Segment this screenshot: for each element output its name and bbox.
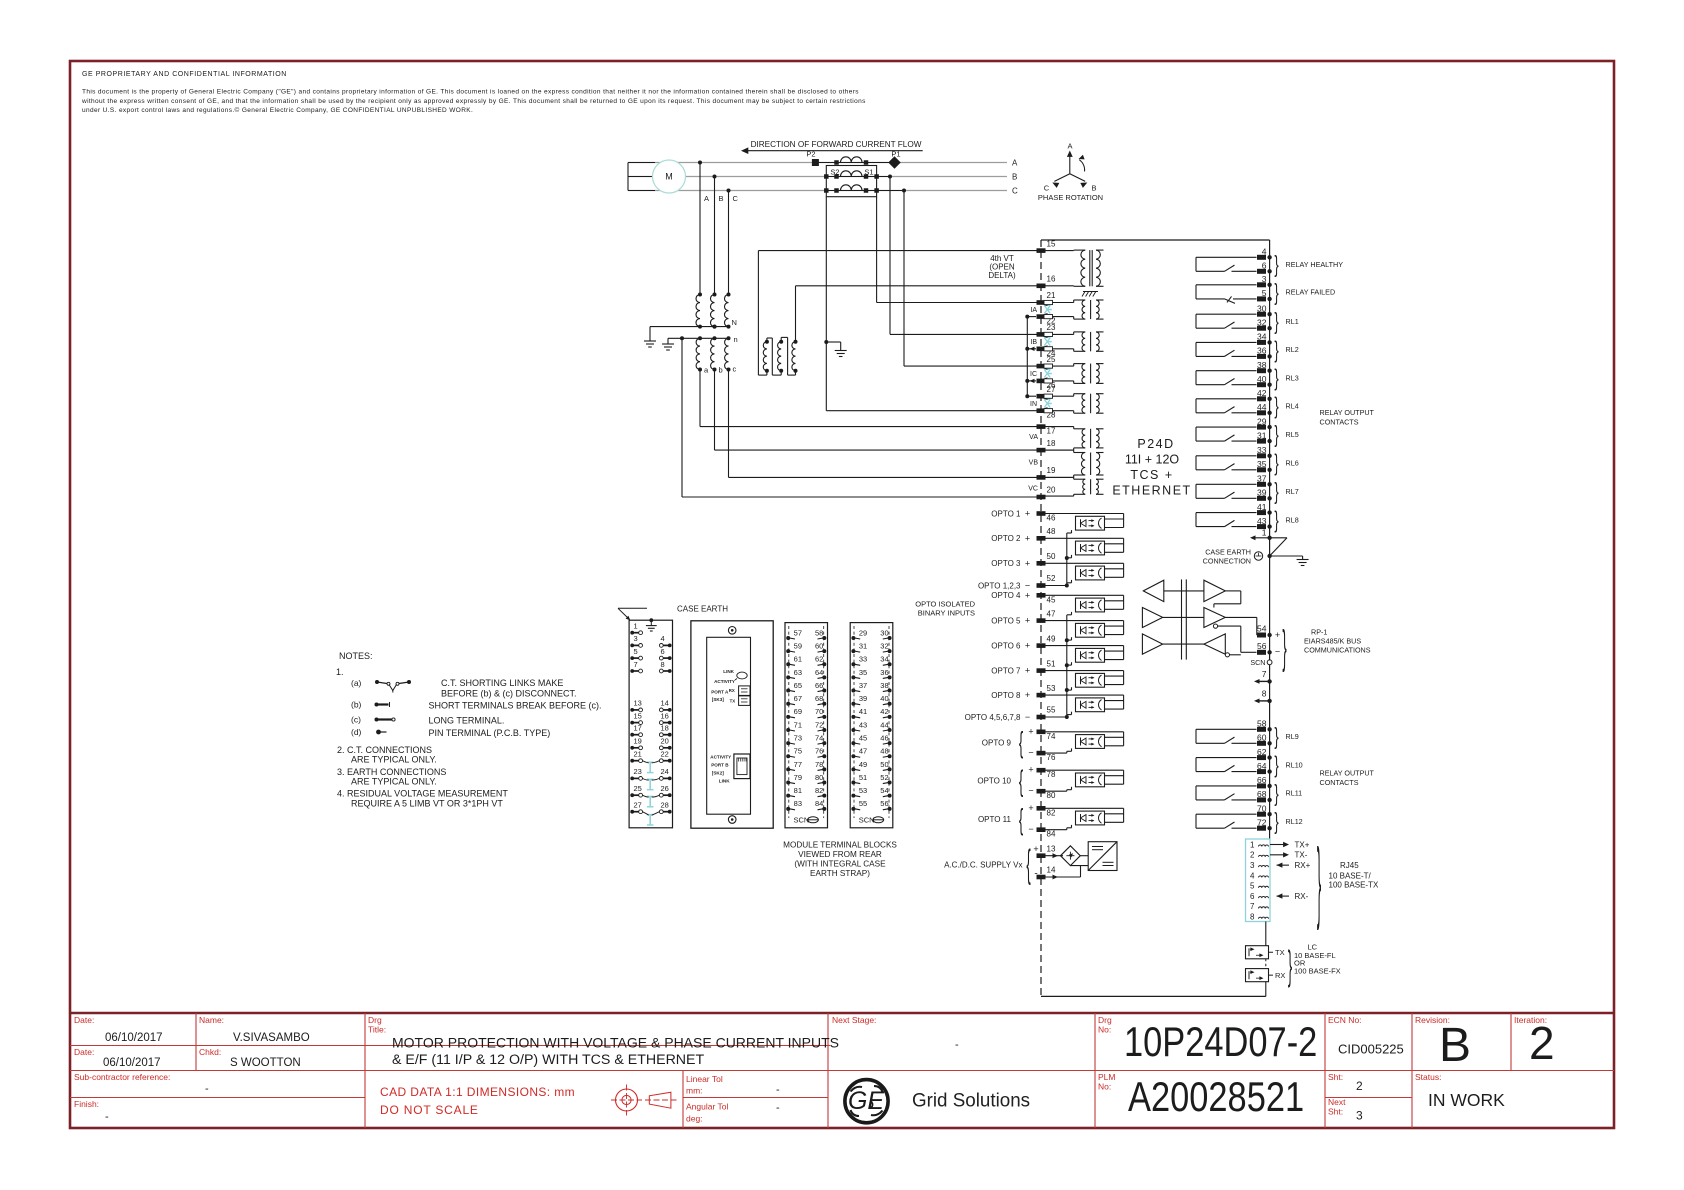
svg-text:30: 30 <box>1257 303 1267 313</box>
svg-text:58: 58 <box>815 628 823 637</box>
svg-text:74: 74 <box>1047 732 1056 741</box>
svg-text:−: − <box>1028 748 1033 758</box>
svg-text:45: 45 <box>1047 595 1056 604</box>
svg-text:06/10/2017: 06/10/2017 <box>103 1057 161 1069</box>
svg-text:N: N <box>732 318 737 327</box>
svg-text:REQUIRE A 5 LIMB VT OR 3: REQUIRE A 5 LIMB VT OR 3*1PH VT <box>351 799 503 809</box>
svg-text:P2: P2 <box>806 150 815 159</box>
svg-text:47: 47 <box>1047 609 1056 618</box>
svg-text:25: 25 <box>1047 355 1056 364</box>
svg-text:13: 13 <box>1047 844 1056 853</box>
svg-text:70: 70 <box>1257 803 1267 813</box>
svg-text:50: 50 <box>1047 552 1056 561</box>
svg-text:-: - <box>955 1039 959 1051</box>
svg-text:3: 3 <box>1250 861 1255 870</box>
svg-text:7: 7 <box>1262 669 1267 679</box>
svg-text:28: 28 <box>661 801 669 810</box>
svg-text:IN: IN <box>1030 401 1037 408</box>
svg-text:44: 44 <box>880 720 888 729</box>
svg-text:}: } <box>1274 308 1278 334</box>
svg-text:Title:: Title: <box>368 1025 386 1035</box>
svg-text:OPTO 1: OPTO 1 <box>991 509 1021 518</box>
svg-text:Date:: Date: <box>74 1015 94 1025</box>
svg-text:15: 15 <box>634 711 642 720</box>
svg-text:PHASE ROTATION: PHASE ROTATION <box>1038 193 1103 202</box>
svg-text:48: 48 <box>880 747 888 756</box>
svg-text:No:: No: <box>1098 1082 1111 1092</box>
svg-text:OPTO 8: OPTO 8 <box>991 691 1021 700</box>
svg-text:S1: S1 <box>864 168 873 177</box>
svg-text:82: 82 <box>815 786 823 795</box>
svg-text:RL11: RL11 <box>1286 789 1303 798</box>
svg-text:S WOOTTON: S WOOTTON <box>230 1057 301 1069</box>
svg-text:RELAY OUTPUT: RELAY OUTPUT <box>1320 408 1375 417</box>
svg-text:Angular Tol: Angular Tol <box>686 1102 728 1112</box>
svg-text:LINK: LINK <box>723 669 734 674</box>
svg-text:68: 68 <box>1257 789 1267 799</box>
svg-text:76: 76 <box>815 747 823 756</box>
svg-text:A: A <box>1012 158 1018 167</box>
svg-text:83: 83 <box>794 799 802 808</box>
svg-text:17: 17 <box>634 724 642 733</box>
svg-text:IN WORK: IN WORK <box>1428 1090 1505 1110</box>
svg-text:14: 14 <box>661 699 669 708</box>
svg-text:TCS +: TCS + <box>1130 468 1173 482</box>
svg-text:PLM: PLM <box>1098 1072 1115 1082</box>
svg-text:TX: TX <box>730 699 736 704</box>
svg-text:58: 58 <box>1257 719 1267 729</box>
svg-text:COMMUNICATIONS: COMMUNICATIONS <box>1304 646 1371 655</box>
svg-text:ARE TYPICAL ONLY.: ARE TYPICAL ONLY. <box>351 777 437 787</box>
svg-text:1: 1 <box>1262 528 1267 538</box>
svg-text:43: 43 <box>859 720 867 729</box>
svg-text:+: + <box>1025 509 1030 519</box>
svg-text:1: 1 <box>1250 840 1255 849</box>
svg-text:19: 19 <box>634 737 642 746</box>
svg-text:(d): (d) <box>351 727 362 737</box>
svg-text:60: 60 <box>1257 733 1267 743</box>
svg-text:5: 5 <box>1250 882 1255 891</box>
svg-text:8: 8 <box>1250 913 1255 922</box>
svg-text:CASE EARTH: CASE EARTH <box>677 605 728 614</box>
svg-text:}: } <box>1274 780 1278 806</box>
svg-text:100 BASE-FX: 100 BASE-FX <box>1294 966 1341 975</box>
svg-text:IB: IB <box>1030 339 1037 346</box>
svg-text:3. EARTH CONNECTIONS: 3. EARTH CONNECTIONS <box>337 767 446 777</box>
svg-text:Linear Tol: Linear Tol <box>686 1074 723 1084</box>
svg-text:LONG TERMINAL.: LONG TERMINAL. <box>429 716 505 726</box>
svg-text:VC: VC <box>1028 486 1038 493</box>
svg-text:RL9: RL9 <box>1286 732 1299 741</box>
svg-text:ARE TYPICAL ONLY.: ARE TYPICAL ONLY. <box>351 755 437 765</box>
svg-text:−: − <box>1028 824 1033 834</box>
svg-text:ETHERNET: ETHERNET <box>1112 484 1191 498</box>
svg-text:DIRECTION OF FORWARD CURREN: DIRECTION OF FORWARD CURRENT FLOW <box>751 140 922 149</box>
svg-text:2: 2 <box>1250 851 1255 860</box>
svg-text:41: 41 <box>859 707 867 716</box>
svg-text:A.C./D.C. SUPPLY Vx: A.C./D.C. SUPPLY Vx <box>944 861 1022 870</box>
svg-text:Chkd:: Chkd: <box>199 1047 221 1057</box>
svg-text:51: 51 <box>1047 659 1056 668</box>
svg-text:+: + <box>1028 726 1033 736</box>
svg-text:P24D: P24D <box>1137 437 1174 451</box>
svg-text:42: 42 <box>880 707 888 716</box>
svg-text:50: 50 <box>880 760 888 769</box>
svg-text:3: 3 <box>634 634 638 643</box>
svg-text:4th VT: 4th VT <box>990 254 1014 263</box>
svg-text:81: 81 <box>794 786 802 795</box>
svg-text:23: 23 <box>634 767 642 776</box>
svg-text:44: 44 <box>1257 402 1267 412</box>
svg-text:2: 2 <box>1529 1017 1555 1069</box>
svg-text:}: } <box>1274 507 1278 533</box>
svg-text:26: 26 <box>661 784 669 793</box>
svg-text:7: 7 <box>634 660 638 669</box>
svg-text:60: 60 <box>815 642 823 651</box>
svg-text:LINK: LINK <box>719 779 730 784</box>
svg-text:-: - <box>776 1102 780 1114</box>
svg-text:RELAY FAILED: RELAY FAILED <box>1286 288 1336 297</box>
svg-text:RX: RX <box>1275 971 1285 980</box>
svg-text:06/10/2017: 06/10/2017 <box>105 1032 163 1044</box>
svg-text:Name:: Name: <box>199 1015 224 1025</box>
svg-text:ACTIVITY: ACTIVITY <box>714 679 735 684</box>
svg-text:52: 52 <box>880 773 888 782</box>
svg-text:32: 32 <box>1257 317 1267 327</box>
svg-text:BEFORE (b) & (c) DISCONNECT.: BEFORE (b) & (c) DISCONNECT. <box>441 689 577 699</box>
svg-text:100 BASE-TX: 100 BASE-TX <box>1329 881 1379 890</box>
svg-text:6: 6 <box>661 647 665 656</box>
svg-text:10 BASE-T/: 10 BASE-T/ <box>1329 872 1372 881</box>
svg-text:Date:: Date: <box>74 1047 94 1057</box>
svg-text:72: 72 <box>1257 817 1267 827</box>
svg-text:Grid Solutions: Grid Solutions <box>912 1090 1030 1111</box>
svg-text:4: 4 <box>1250 871 1255 880</box>
svg-text:52: 52 <box>1047 574 1056 583</box>
svg-text:+: + <box>1275 630 1280 640</box>
svg-text:46: 46 <box>1047 514 1056 523</box>
svg-text:4. RESIDUAL VOLTAGE MEASURE: 4. RESIDUAL VOLTAGE MEASUREMENT <box>337 789 508 799</box>
svg-text:CONTACTS: CONTACTS <box>1320 418 1359 427</box>
svg-text:Drg: Drg <box>1098 1015 1112 1025</box>
svg-text:OPTO 11: OPTO 11 <box>978 815 1012 824</box>
svg-text:56: 56 <box>1257 641 1267 651</box>
svg-text:+: + <box>1025 690 1030 700</box>
svg-text:27: 27 <box>634 801 642 810</box>
svg-text:+: + <box>1025 616 1030 626</box>
svg-text:}: } <box>1274 723 1278 749</box>
svg-text:}: } <box>1274 752 1278 778</box>
svg-text:No:: No: <box>1098 1025 1111 1035</box>
svg-text:{: { <box>1019 802 1024 836</box>
svg-text:30: 30 <box>880 628 888 637</box>
svg-text:[SK2]: [SK2] <box>712 771 724 776</box>
svg-text:68: 68 <box>815 694 823 703</box>
svg-text:PORT B: PORT B <box>711 763 729 768</box>
svg-text:2. C.T. CONNECTIONS: 2. C.T. CONNECTIONS <box>337 745 432 755</box>
svg-text:46: 46 <box>880 734 888 743</box>
svg-text:51: 51 <box>859 773 867 782</box>
svg-text:Status:: Status: <box>1415 1072 1441 1082</box>
svg-text:MOTOR PROTECTION WITH VOLTAGE: MOTOR PROTECTION WITH VOLTAGE & PHASE CU… <box>392 1035 839 1051</box>
svg-text:& E/F (11 I/P & 12 O/P) WITH T: & E/F (11 I/P & 12 O/P) WITH TCS & ETHER… <box>392 1052 705 1068</box>
svg-text:65: 65 <box>794 681 802 690</box>
svg-text:CID005225: CID005225 <box>1338 1042 1404 1057</box>
svg-text:56: 56 <box>880 799 888 808</box>
svg-text:55: 55 <box>1047 706 1056 715</box>
svg-text:A: A <box>704 194 709 203</box>
svg-text:75: 75 <box>794 747 802 756</box>
svg-text:Sht:: Sht: <box>1328 1072 1343 1082</box>
svg-text:B: B <box>1439 1019 1471 1072</box>
svg-text:+: + <box>1025 558 1030 568</box>
svg-text:}: } <box>1274 808 1278 834</box>
svg-text:(c): (c) <box>351 715 361 725</box>
svg-text:1.: 1. <box>336 667 344 677</box>
svg-text:4: 4 <box>661 634 665 643</box>
svg-text:RP-1: RP-1 <box>1311 628 1327 637</box>
svg-text:IC: IC <box>1030 371 1037 378</box>
svg-text:4: 4 <box>1262 247 1267 257</box>
svg-text:}: } <box>1288 944 1292 988</box>
svg-text:PORT A: PORT A <box>711 690 729 695</box>
svg-text:18: 18 <box>1047 439 1056 448</box>
svg-text:under U.S. export control laws: under U.S. export control laws and regul… <box>82 106 473 114</box>
svg-text:18: 18 <box>661 724 669 733</box>
svg-text:[SK3]: [SK3] <box>712 697 724 702</box>
svg-text:8: 8 <box>1262 688 1267 698</box>
svg-text:66: 66 <box>815 681 823 690</box>
svg-text:}: } <box>1274 279 1278 305</box>
svg-text:3: 3 <box>1262 274 1267 284</box>
svg-text:RL1: RL1 <box>1286 317 1299 326</box>
svg-text:25: 25 <box>634 784 642 793</box>
svg-text:OPTO ISOLATED: OPTO ISOLATED <box>915 600 975 609</box>
svg-text:27: 27 <box>1047 385 1056 394</box>
svg-text:32: 32 <box>880 642 888 651</box>
svg-text:43: 43 <box>1257 516 1267 526</box>
svg-text:+: + <box>1028 803 1033 813</box>
svg-text:OPTO 4: OPTO 4 <box>991 591 1021 600</box>
svg-text:}: } <box>1317 830 1321 931</box>
svg-text:29: 29 <box>1257 416 1267 426</box>
svg-text:35: 35 <box>1257 459 1267 469</box>
svg-text:Finish:: Finish: <box>74 1099 99 1109</box>
svg-text:24: 24 <box>661 767 669 776</box>
svg-text:RL4: RL4 <box>1286 402 1299 411</box>
svg-text:n: n <box>734 335 738 344</box>
svg-text:72: 72 <box>815 720 823 729</box>
svg-text:mm:: mm: <box>686 1086 703 1096</box>
svg-text:OPTO 9: OPTO 9 <box>982 738 1012 747</box>
svg-text:39: 39 <box>859 694 867 703</box>
svg-text:35: 35 <box>859 668 867 677</box>
svg-text:29: 29 <box>859 628 867 637</box>
svg-text:16: 16 <box>1047 275 1056 284</box>
svg-text:79: 79 <box>794 773 802 782</box>
svg-text:RJ45: RJ45 <box>1340 861 1359 870</box>
svg-text:10P24D07-2: 10P24D07-2 <box>1124 1019 1317 1066</box>
svg-text:−: − <box>1275 647 1280 657</box>
svg-text:84: 84 <box>815 799 823 808</box>
svg-text:{: { <box>1019 764 1024 798</box>
svg-text:69: 69 <box>794 707 802 716</box>
svg-text:1: 1 <box>634 622 638 631</box>
svg-text:66: 66 <box>1257 775 1267 785</box>
svg-text:RL12: RL12 <box>1286 817 1303 826</box>
svg-text:62: 62 <box>815 655 823 664</box>
svg-text:}: } <box>1274 365 1278 391</box>
svg-text:+: + <box>1033 844 1038 854</box>
svg-text:(b): (b) <box>351 700 362 710</box>
svg-text:c: c <box>733 365 737 374</box>
svg-text:}: } <box>1274 450 1278 476</box>
svg-text:}: } <box>1274 421 1278 447</box>
svg-text:(WITH INTEGRAL CASE: (WITH INTEGRAL CASE <box>794 860 886 869</box>
svg-text:Sub-contractor reference:: Sub-contractor reference: <box>74 1072 170 1082</box>
svg-text:77: 77 <box>794 760 802 769</box>
svg-text:6: 6 <box>1250 892 1255 901</box>
svg-text:SCN: SCN <box>794 816 810 825</box>
svg-text:57: 57 <box>794 628 802 637</box>
svg-text:SCN: SCN <box>1250 658 1265 667</box>
svg-text:80: 80 <box>815 773 823 782</box>
svg-text:RELAY OUTPUT: RELAY OUTPUT <box>1320 769 1375 778</box>
svg-text:RL10: RL10 <box>1286 760 1303 769</box>
svg-text:3: 3 <box>1356 1109 1363 1123</box>
svg-text:RL7: RL7 <box>1286 487 1299 496</box>
svg-text:8: 8 <box>661 660 665 669</box>
svg-text:+: + <box>1025 533 1030 543</box>
svg-text:M: M <box>665 172 673 182</box>
svg-text:This document is the property: This document is the property of General… <box>82 89 859 96</box>
svg-text:Next: Next <box>1328 1097 1346 1107</box>
svg-text:ECN No:: ECN No: <box>1328 1015 1362 1025</box>
svg-text:71: 71 <box>794 720 802 729</box>
svg-text:{: { <box>1019 725 1024 759</box>
svg-text:16: 16 <box>661 711 669 720</box>
svg-text:20: 20 <box>661 737 669 746</box>
svg-text:deg:: deg: <box>686 1114 703 1124</box>
svg-text:55: 55 <box>859 799 867 808</box>
svg-text:}: } <box>1274 478 1278 504</box>
svg-text:IA: IA <box>1030 307 1037 314</box>
svg-text:b: b <box>719 366 723 375</box>
svg-text:RELAY HEALTHY: RELAY HEALTHY <box>1286 260 1344 269</box>
svg-text:EIARS485/K BUS: EIARS485/K BUS <box>1304 637 1361 646</box>
svg-text:B: B <box>1091 184 1096 193</box>
svg-text:74: 74 <box>815 734 823 743</box>
svg-text:80: 80 <box>1047 791 1056 800</box>
svg-text:B: B <box>719 194 724 203</box>
svg-text:59: 59 <box>794 642 802 651</box>
svg-text:−: − <box>1025 581 1030 591</box>
svg-text:48: 48 <box>1047 527 1056 536</box>
svg-text:OPTO 6: OPTO 6 <box>991 641 1021 650</box>
svg-text:53: 53 <box>859 786 867 795</box>
svg-text:19: 19 <box>1047 466 1056 475</box>
svg-text:67: 67 <box>794 694 802 703</box>
svg-text:14: 14 <box>1047 866 1056 875</box>
svg-text:}: } <box>1274 336 1278 362</box>
svg-text:-: - <box>205 1083 209 1095</box>
svg-text:38: 38 <box>880 681 888 690</box>
svg-text:37: 37 <box>859 681 867 690</box>
svg-text:ACTIVITY: ACTIVITY <box>710 755 731 760</box>
svg-text:SHORT TERMINALS BREAK BEFORE (: SHORT TERMINALS BREAK BEFORE (c). <box>429 701 602 711</box>
svg-text:40: 40 <box>880 694 888 703</box>
svg-text:RL8: RL8 <box>1286 515 1299 524</box>
svg-text:64: 64 <box>1257 761 1267 771</box>
svg-text:GE PROPRIETARY AND CONFIDENTIA: GE PROPRIETARY AND CONFIDENTIAL INFORMAT… <box>82 71 287 78</box>
svg-text:V.SIVASAMBO: V.SIVASAMBO <box>233 1032 310 1044</box>
svg-text:GE: GE <box>848 1087 884 1115</box>
svg-text:62: 62 <box>1257 747 1267 757</box>
svg-text:49: 49 <box>1047 634 1056 643</box>
svg-text:11I + 12O: 11I + 12O <box>1125 453 1180 467</box>
svg-text:MODULE TERMINAL BLOCKS: MODULE TERMINAL BLOCKS <box>783 841 897 850</box>
svg-text:B: B <box>1012 172 1017 181</box>
svg-text:76: 76 <box>1047 753 1056 762</box>
svg-text:+: + <box>1025 666 1030 676</box>
svg-text:VB: VB <box>1029 460 1039 467</box>
svg-text:34: 34 <box>880 655 888 664</box>
svg-text:NOTES:: NOTES: <box>339 651 373 661</box>
svg-text:RL6: RL6 <box>1286 459 1299 468</box>
svg-text:CASE EARTH: CASE EARTH <box>1205 548 1251 557</box>
svg-text:+: + <box>1028 765 1033 775</box>
svg-text:TX: TX <box>1275 948 1285 957</box>
svg-text:−: − <box>1025 712 1030 722</box>
svg-text:2: 2 <box>1356 1079 1363 1093</box>
svg-text:RX: RX <box>729 688 735 693</box>
svg-text:PIN TERMINAL (P.C.B. TYPE): PIN TERMINAL (P.C.B. TYPE) <box>429 728 551 738</box>
svg-text:OPTO 4,5,6,7,8: OPTO 4,5,6,7,8 <box>965 713 1021 722</box>
svg-text:VIEWED FROM REAR: VIEWED FROM REAR <box>798 850 882 859</box>
svg-text:P1: P1 <box>891 150 900 159</box>
svg-text:DELTA): DELTA) <box>988 271 1016 280</box>
svg-text:C: C <box>1044 184 1050 193</box>
svg-text:40: 40 <box>1257 374 1267 384</box>
svg-text:Drg: Drg <box>368 1015 382 1025</box>
svg-text:82: 82 <box>1047 808 1056 817</box>
svg-text:17: 17 <box>1047 427 1056 436</box>
svg-text:84: 84 <box>1047 830 1056 839</box>
svg-text:5: 5 <box>634 647 638 656</box>
svg-text:22: 22 <box>661 750 669 759</box>
svg-text:33: 33 <box>859 655 867 664</box>
svg-text:}: } <box>1274 251 1278 277</box>
svg-text:Next Stage:: Next Stage: <box>832 1015 876 1025</box>
svg-text:41: 41 <box>1257 502 1267 512</box>
svg-text:15: 15 <box>1047 239 1056 248</box>
svg-text:RL5: RL5 <box>1286 430 1299 439</box>
svg-text:73: 73 <box>794 734 802 743</box>
svg-text:S2: S2 <box>830 168 839 177</box>
svg-text:SCN: SCN <box>859 816 875 825</box>
svg-text:38: 38 <box>1257 360 1267 370</box>
svg-text:+: + <box>1025 641 1030 651</box>
svg-text:{: { <box>1026 843 1030 886</box>
svg-text:RL2: RL2 <box>1286 345 1299 354</box>
svg-text:64: 64 <box>815 668 823 677</box>
svg-text:OPTO 10: OPTO 10 <box>977 777 1011 786</box>
svg-text:7: 7 <box>1250 902 1255 911</box>
svg-text:39: 39 <box>1257 488 1267 498</box>
svg-text:61: 61 <box>794 655 802 664</box>
svg-text:33: 33 <box>1257 445 1267 455</box>
svg-text:OPTO 2: OPTO 2 <box>991 534 1021 543</box>
